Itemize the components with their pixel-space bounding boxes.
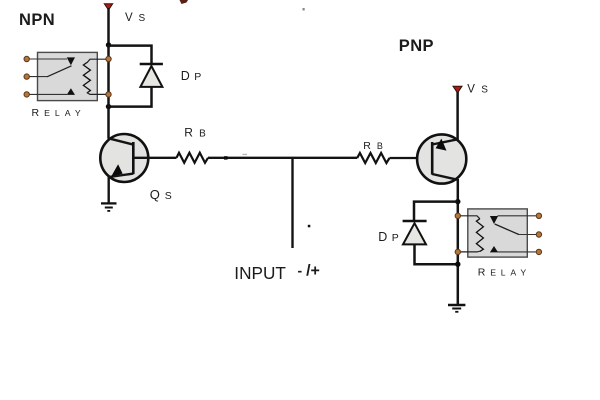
- stray gray dash: [243, 154, 248, 155]
- relay K1 coil: [83, 63, 90, 94]
- stray dot: [308, 225, 311, 228]
- resistor RB (left): [177, 153, 209, 163]
- relay K1 pin 1: [24, 56, 29, 61]
- relay K1 coil bottom lead: [87, 93, 106, 95]
- wire VS left vertical: [107, 8, 110, 45]
- relay K2 pin 2: [536, 232, 541, 237]
- relay K1 bottom contact: [67, 88, 75, 95]
- diode Dp (left) cathode bar: [140, 63, 163, 66]
- resistor RB (right): [357, 153, 389, 163]
- node B junction (left bottom): [106, 104, 111, 109]
- relay K2 coil top lead: [460, 216, 480, 219]
- stray faint dot top: [303, 8, 305, 11]
- node D junction (right bottom): [455, 262, 460, 267]
- svg-text:DP: DP: [181, 69, 206, 83]
- svg-text:RB: RB: [363, 140, 389, 152]
- transistor Q1 collector wire: [109, 138, 134, 144]
- transistor Q2 emitter wire: [432, 139, 457, 144]
- wire input vertical: [291, 158, 293, 248]
- svg-text:DP: DP: [378, 230, 403, 244]
- relay K1 pin 2: [24, 74, 29, 79]
- transistor Q1 emitter arrow: [111, 164, 123, 176]
- relay K2 top contact: [490, 216, 498, 224]
- svg-text:VS: VS: [125, 12, 151, 24]
- wire node C to diode Dp right: [414, 202, 458, 221]
- node A junction (left top): [106, 42, 111, 47]
- relay K1 (left) body: [38, 52, 98, 100]
- svg-text:RB: RB: [184, 126, 212, 140]
- relay K2 coil: [476, 219, 483, 252]
- relay K2 coil pin bottom: [455, 249, 460, 254]
- relay K1 pin 3: [24, 92, 29, 97]
- transistor Q2 body: [417, 134, 466, 183]
- ground (right): [448, 305, 465, 312]
- relay K2 coil bottom lead: [460, 250, 480, 253]
- relay K2 top contact lead: [498, 215, 538, 217]
- svg-text:NPN: NPN: [19, 11, 55, 29]
- svg-text:RELAY: RELAY: [32, 107, 86, 119]
- svg-text:INPUT: INPUT: [234, 263, 286, 283]
- relay K2 armature: [495, 224, 519, 235]
- relay K2 (right) body: [468, 209, 528, 257]
- wire diode Dp bottom to node B: [109, 87, 152, 107]
- relay K2 pin 1: [536, 213, 541, 218]
- relay K2 pin 3: [536, 249, 541, 254]
- wire emitter to ground: [107, 177, 109, 204]
- power VS (left) terminal: [104, 4, 112, 10]
- wire main right vertical: [457, 179, 460, 305]
- diode Dp (right) cathode bar: [403, 220, 427, 223]
- svg-text:RELAY: RELAY: [478, 267, 531, 279]
- diode Dp (right) triangle: [403, 223, 426, 244]
- junction dot small: [224, 156, 228, 159]
- power VS (right) terminal: [453, 86, 462, 93]
- wire main left vertical: [107, 45, 110, 139]
- relay K1 top contact: [67, 57, 75, 65]
- transistor Q1 base bar: [132, 142, 135, 174]
- wire center horizontal: [208, 157, 357, 159]
- node C junction (right top): [455, 199, 460, 204]
- wire Q1 base to resistor RB: [133, 157, 176, 159]
- wire node A to diode Dp top: [109, 46, 152, 64]
- wire VS right vertical: [456, 92, 459, 140]
- relay K1 coil top lead: [87, 59, 106, 63]
- wire diode Dp right bottom to node D: [415, 244, 458, 264]
- relay K2 common lead: [519, 234, 538, 236]
- diode Dp (left) triangle: [140, 66, 162, 87]
- svg-text:QS: QS: [150, 187, 177, 202]
- transistor Q2 emitter arrow: [436, 139, 447, 151]
- transistor Q2 collector wire: [432, 174, 458, 180]
- relay K1 common lead: [29, 76, 48, 78]
- transistor Q1 body: [100, 134, 148, 182]
- stray red mark top: [180, 0, 189, 4]
- relay K2 bottom contact lead: [498, 251, 538, 253]
- relay K1 coil pin top: [106, 56, 111, 61]
- relay K1 bottom contact lead: [29, 93, 68, 95]
- relay K1 armature: [47, 66, 72, 77]
- transistor Q2 base bar: [431, 142, 434, 175]
- relay K2 coil pin top: [455, 213, 460, 218]
- svg-text:VS: VS: [467, 84, 494, 96]
- relay K2 bottom contact: [490, 246, 498, 252]
- transistor Q1 emitter wire: [109, 174, 134, 178]
- relay K1 top contact lead: [29, 58, 68, 60]
- relay K1 coil pin bottom: [106, 92, 111, 97]
- wire RB to Q2 base: [390, 157, 433, 159]
- svg-text:PNP: PNP: [399, 37, 434, 55]
- ground (left): [101, 203, 117, 211]
- svg-text:- /+: - /+: [298, 263, 320, 280]
